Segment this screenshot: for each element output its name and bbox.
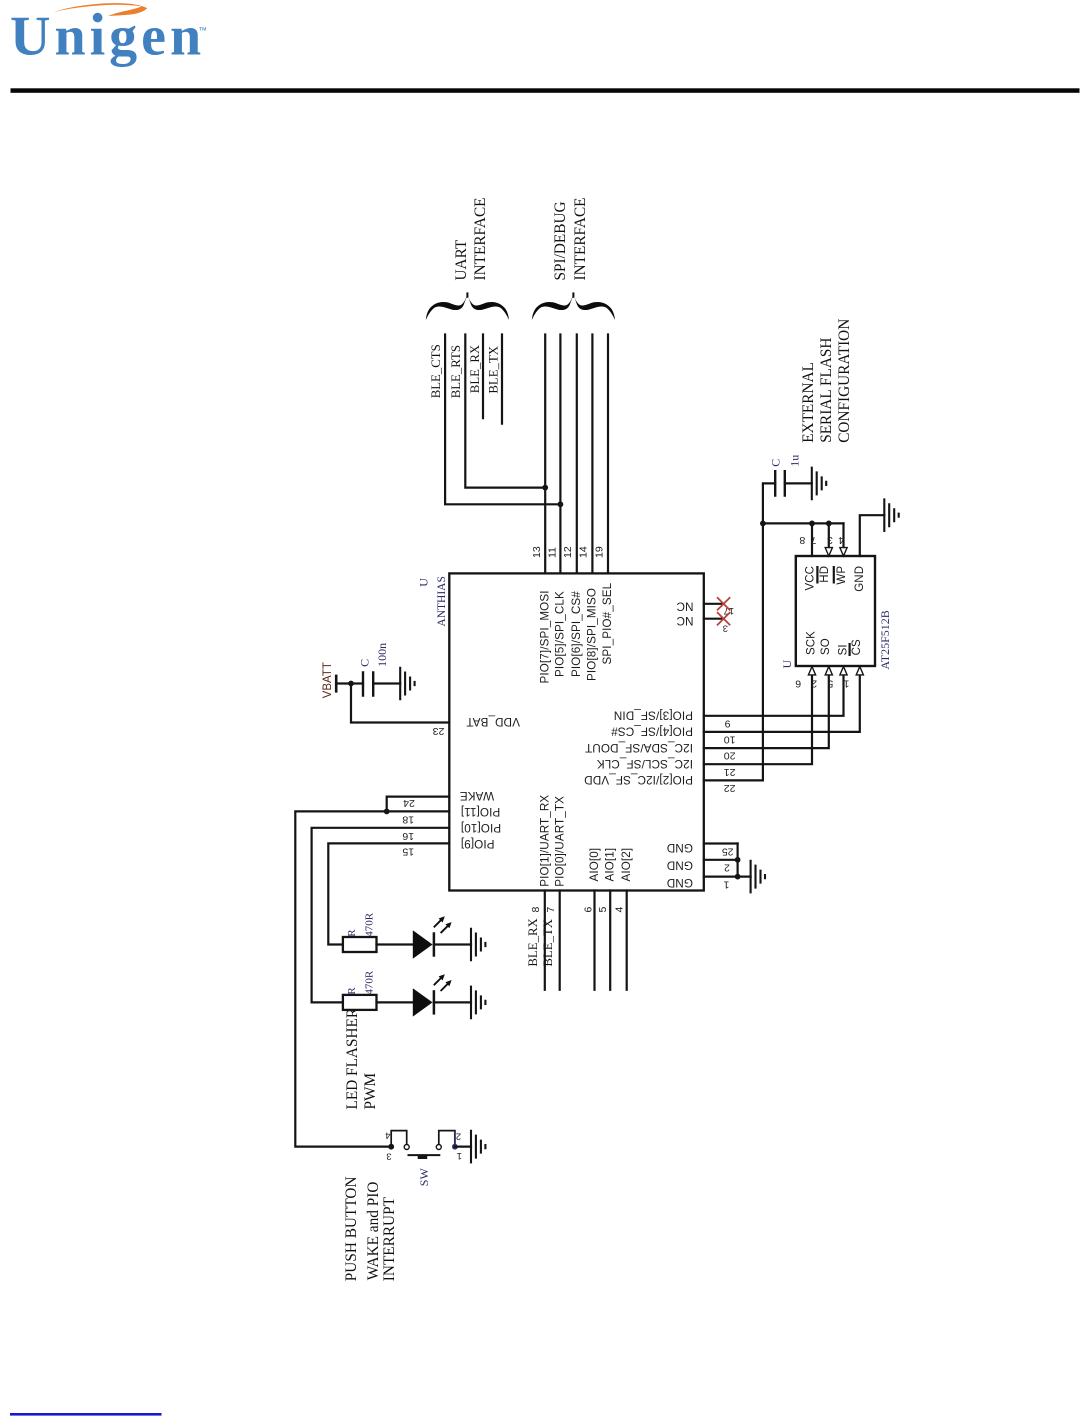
svg-text:PIO[4]/SF_CS#: PIO[4]/SF_CS# <box>611 725 693 738</box>
svg-text:BLE_TX: BLE_TX <box>541 918 555 966</box>
pin 21 I2C_SCL/SF_CLK wire to flash SCK <box>704 675 812 764</box>
svg-text:5: 5 <box>827 678 833 690</box>
pin 2 GND wire <box>704 859 738 861</box>
svg-text:11: 11 <box>546 547 558 558</box>
flash pin 1 CS arrow <box>856 667 863 675</box>
svg-text:Unıgen: Unıgen <box>10 6 205 68</box>
pin 10 PIO[4]/SF_CS# wire to flash CS <box>704 675 860 732</box>
pin 9 PIO[3]/SF_DIN wire to flash SI <box>704 675 844 715</box>
pin 4 AIO[2] wire <box>626 891 628 990</box>
op IC U ANTHAS body <box>449 573 704 890</box>
wire SPI_CLK (pin 11) <box>559 335 561 574</box>
IC U AT25F512B body <box>796 556 875 666</box>
svg-text:12: 12 <box>562 546 574 558</box>
svg-text:4: 4 <box>385 1129 390 1140</box>
wire resistor to LED (D1) <box>377 943 413 945</box>
wire SPI_CS# (pin 12) <box>576 335 578 574</box>
GND bus vertical <box>738 844 751 877</box>
svg-text:PIO[0]/UART_TX: PIO[0]/UART_TX <box>554 796 567 887</box>
wire SPI_PIO#_SEL (pin 19) <box>607 335 609 574</box>
svg-text:AIO[1]: AIO[1] <box>603 848 616 882</box>
svg-text:U: U <box>780 659 794 668</box>
svg-text:SO: SO <box>820 638 832 655</box>
svg-text:WP: WP <box>836 566 848 585</box>
pin 22 PIO[2]/I2C_SF_VDD wire to flash VCC bus <box>704 523 763 780</box>
svg-text:CS: CS <box>851 639 863 655</box>
no-connect X (pin 17) <box>717 597 730 610</box>
svg-text:EXTERNAL: EXTERNAL <box>800 362 817 443</box>
pin 7 UART_TX wire <box>559 891 561 990</box>
svg-text:SI: SI <box>838 644 850 655</box>
svg-text:10: 10 <box>724 734 736 746</box>
ground (100n cap) <box>400 667 414 701</box>
capacitor C 100n <box>363 671 373 696</box>
svg-text:PIO[3]/SF_DIN: PIO[3]/SF_DIN <box>614 709 693 722</box>
svg-text:SW: SW <box>417 1168 431 1187</box>
resistor R 470R (D2) <box>343 995 377 1010</box>
svg-text:18: 18 <box>402 814 414 826</box>
svg-text:9: 9 <box>725 717 731 729</box>
svg-text:WAKE and PIO: WAKE and PIO <box>365 1182 382 1281</box>
svg-text:22: 22 <box>724 782 736 794</box>
switch pin 4 open terminal <box>404 1145 409 1150</box>
svg-text:™: ™ <box>199 25 208 35</box>
svg-text:4: 4 <box>838 534 844 546</box>
svg-text:GND: GND <box>667 841 693 854</box>
pin 5 AIO[1] wire <box>609 891 611 990</box>
flash pin 8 VCC wire <box>811 523 813 556</box>
svg-text:PIO[7]/SPI_MOSI: PIO[7]/SPI_MOSI <box>538 590 551 683</box>
flash pin 3 WP wire <box>842 523 844 548</box>
svg-text:21: 21 <box>724 766 736 778</box>
svg-text:2: 2 <box>456 1130 461 1141</box>
svg-text:SCK: SCK <box>806 631 818 655</box>
brace UART interface <box>426 294 509 320</box>
svg-text:470R: 470R <box>364 912 376 937</box>
svg-text:PIO[10]: PIO[10] <box>461 821 501 834</box>
pin 18 PIO[11] wire to switch <box>295 811 449 1146</box>
flash pin 5 SI arrow <box>840 667 847 675</box>
net BLE_RTS stub <box>465 335 545 488</box>
svg-text:5: 5 <box>597 907 609 913</box>
svg-text:24: 24 <box>403 797 415 809</box>
logo i-dot <box>93 13 103 23</box>
footer blue rule <box>10 1413 162 1416</box>
net BLE_TX stub <box>501 335 503 424</box>
svg-text:WAKE: WAKE <box>460 789 494 802</box>
wire resistor to LED (D2) <box>377 1001 413 1003</box>
svg-text:PIO[11]: PIO[11] <box>461 805 500 818</box>
svg-text:C: C <box>358 659 372 667</box>
svg-text:14: 14 <box>578 546 590 558</box>
svg-text:SERIAL FLASH: SERIAL FLASH <box>818 338 835 443</box>
svg-text:BLE_RX: BLE_RX <box>526 917 540 966</box>
junction WAKE/PIO11 <box>384 809 390 815</box>
power flag VBATT <box>335 675 338 693</box>
svg-text:R: R <box>346 929 358 937</box>
svg-text:SPI/DEBUG: SPI/DEBUG <box>552 201 569 280</box>
svg-text:INTERRUPT: INTERRUPT <box>381 1196 398 1281</box>
junction BLE_RTS/SPI_MOSI <box>542 485 548 491</box>
junction BLE_CTS/SPI_CLK <box>558 501 564 507</box>
svg-text:SPI_PIO#_SEL: SPI_PIO#_SEL <box>601 582 614 664</box>
header rule <box>11 88 1080 93</box>
svg-text:INTERFACE: INTERFACE <box>472 198 489 281</box>
svg-text:8: 8 <box>530 907 542 913</box>
LED D2 emission arrows <box>434 976 450 991</box>
wire SPI_MISO (pin 14) <box>591 335 593 574</box>
junction VBATT node <box>348 681 354 687</box>
pin 16 PIO[10] wire to R2 <box>312 828 450 1003</box>
pin 17 NC stub <box>704 603 724 605</box>
svg-text:16: 16 <box>402 830 414 842</box>
net BLE_RX stub <box>482 335 484 419</box>
svg-text:2: 2 <box>811 678 817 690</box>
wire switch to ground <box>455 1145 471 1147</box>
LED D1 emission arrows <box>434 918 450 933</box>
svg-text:BLE_RTS: BLE_RTS <box>449 345 463 398</box>
brace SPI/DEBUG interface <box>532 294 615 320</box>
svg-text:PUSH BUTTON: PUSH BUTTON <box>343 1176 360 1281</box>
svg-text:3: 3 <box>723 623 728 634</box>
svg-text:GND: GND <box>667 876 693 889</box>
pin 23 VDD_BAT wire <box>351 684 449 723</box>
svg-text:PIO[6]/SPI_CS#: PIO[6]/SPI_CS# <box>570 591 583 677</box>
switch actuator bar <box>408 1154 441 1156</box>
ground (1u cap) <box>812 467 826 501</box>
pin 1 GND wire <box>704 875 738 877</box>
svg-text:CONFIGURATION: CONFIGURATION <box>836 319 853 443</box>
svg-text:I2C_SDA/SF_DOUT: I2C_SDA/SF_DOUT <box>585 741 693 754</box>
ground (LED D1) <box>471 928 485 962</box>
svg-text:LED FLASHER: LED FLASHER <box>344 1007 361 1109</box>
svg-text:PIO[8]/SPI_MISO: PIO[8]/SPI_MISO <box>586 588 599 681</box>
svg-text:INTERFACE: INTERFACE <box>572 198 589 281</box>
svg-text:BLE_RX: BLE_RX <box>468 344 482 393</box>
svg-text:BLE_TX: BLE_TX <box>487 345 501 393</box>
capacitor C 1u <box>763 483 775 523</box>
svg-text:23: 23 <box>433 725 445 737</box>
svg-text:1: 1 <box>843 678 849 690</box>
svg-text:3: 3 <box>386 1150 391 1161</box>
LED D1 <box>413 930 433 958</box>
svg-text:PIO[5]/SPI_CLK: PIO[5]/SPI_CLK <box>554 591 567 677</box>
svg-text:R: R <box>346 987 358 995</box>
ground (IC GND pins) <box>751 860 765 894</box>
svg-text:PIO[9]: PIO[9] <box>461 837 495 850</box>
svg-text:25: 25 <box>722 845 734 857</box>
svg-text:VCC: VCC <box>805 566 817 591</box>
svg-text:HD: HD <box>819 566 831 583</box>
svg-text:7: 7 <box>545 907 557 913</box>
svg-text:2: 2 <box>724 861 730 873</box>
net BLE_CTS stub <box>445 335 560 505</box>
svg-text:AIO[0]: AIO[0] <box>588 848 601 882</box>
switch SW contact 2-1 <box>439 1131 455 1145</box>
pin 25 GND wire <box>704 842 738 844</box>
switch SW contact 4-3 <box>391 1131 407 1147</box>
switch pin 1 leg (navy) <box>454 1131 456 1147</box>
no-connect X (pin 3) <box>717 612 730 625</box>
svg-text:4: 4 <box>613 907 625 913</box>
wire LED to ground (D2) <box>434 1001 471 1003</box>
svg-text:AT25F512B: AT25F512B <box>878 610 892 669</box>
wire LED to ground (D1) <box>434 943 471 945</box>
svg-text:20: 20 <box>724 750 736 762</box>
svg-text:VBATT: VBATT <box>322 662 334 698</box>
svg-text:PIO[2]/I2C_SF_VDD: PIO[2]/I2C_SF_VDD <box>584 773 693 786</box>
svg-text:VDD_BAT: VDD_BAT <box>466 715 520 728</box>
flash pin 6 SCK arrow <box>808 667 815 675</box>
svg-text:C: C <box>768 459 782 467</box>
svg-text:1: 1 <box>723 878 729 890</box>
svg-text:AIO[2]: AIO[2] <box>620 848 633 882</box>
ground (flash GND) <box>884 498 898 532</box>
svg-text:GND: GND <box>667 858 693 871</box>
flash pin 4 GND wire <box>860 515 885 556</box>
svg-text:PWM: PWM <box>362 1073 379 1110</box>
svg-text:U: U <box>417 578 431 587</box>
pin 3 NC stub <box>704 618 724 620</box>
ground (LED D2) <box>471 986 485 1020</box>
pin 6 AIO[0] wire <box>593 891 595 990</box>
switch pin 2 open terminal <box>436 1145 441 1150</box>
svg-text:PIO[1]/UART_RX: PIO[1]/UART_RX <box>538 795 551 887</box>
svg-text:I2C_SCL/SF_CLK: I2C_SCL/SF_CLK <box>597 757 693 770</box>
svg-text:470R: 470R <box>364 970 376 995</box>
svg-text:BLE_CTS: BLE_CTS <box>429 344 443 398</box>
junction GND pins <box>735 857 741 863</box>
resistor R 470R (D1) <box>343 937 377 952</box>
junction bus/pin22 riser <box>760 521 766 527</box>
svg-text:GND: GND <box>854 566 866 592</box>
logo swoosh <box>54 3 147 16</box>
pin 8 UART_RX wire <box>544 891 546 990</box>
flash pin 2 SO arrow <box>825 667 832 675</box>
svg-text:3: 3 <box>827 534 833 546</box>
svg-text:19: 19 <box>593 546 605 558</box>
svg-text:100n: 100n <box>375 643 389 667</box>
svg-text:13: 13 <box>531 546 543 558</box>
pin 20 I2C_SDA/SF_DOUT wire to flash SO <box>704 675 829 748</box>
svg-text:1: 1 <box>457 1150 462 1161</box>
svg-text:1u: 1u <box>787 455 801 467</box>
svg-text:UART: UART <box>453 239 470 280</box>
junction switch pin 3 <box>388 1144 394 1150</box>
wire SPI_MOSI (pin 13) <box>544 335 546 574</box>
svg-text:15: 15 <box>402 846 414 858</box>
svg-text:NC: NC <box>676 599 693 612</box>
pin 24 WAKE wire <box>387 797 450 812</box>
ground (switch) <box>471 1130 485 1164</box>
svg-text:8: 8 <box>799 534 805 546</box>
flash pin 7 HD wire <box>828 523 830 548</box>
svg-text:6: 6 <box>582 907 594 913</box>
VCC bus line <box>763 522 844 524</box>
svg-text:7: 7 <box>810 534 816 546</box>
svg-text:ANTHIAS: ANTHIAS <box>436 576 448 626</box>
svg-text:6: 6 <box>795 678 801 690</box>
svg-text:NC: NC <box>676 614 693 627</box>
LED D2 <box>413 988 433 1016</box>
pin 15 PIO[9] wire to R1 <box>328 843 449 944</box>
